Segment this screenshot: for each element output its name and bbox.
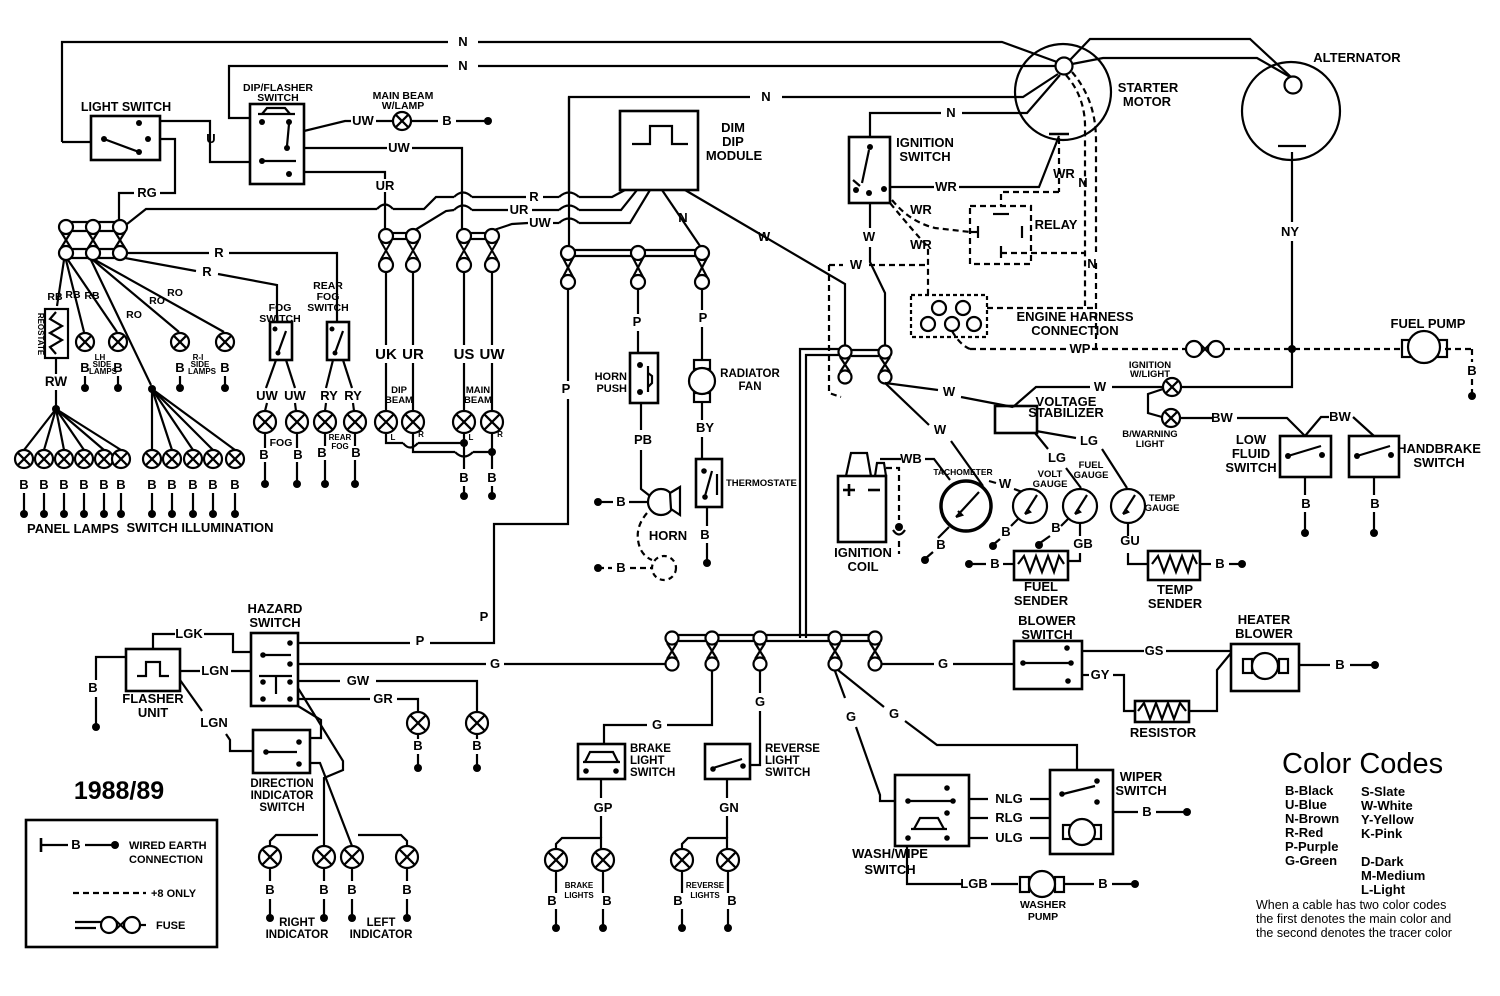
svg-text:K-Pink: K-Pink [1361, 826, 1403, 841]
wire main beam B grounds [459, 432, 468, 500]
svg-text:CONNECTION: CONNECTION [129, 854, 203, 866]
wire LGK [153, 626, 251, 652]
svg-text:FOG: FOG [270, 437, 293, 449]
bus fuse G4 [829, 632, 842, 671]
svg-text:M-Medium: M-Medium [1361, 868, 1425, 883]
bus fuse G2 [706, 632, 719, 671]
wire US column [454, 272, 475, 411]
svg-text:FAN: FAN [739, 381, 762, 393]
fuse W1 [839, 346, 852, 384]
svg-text:W: W [943, 384, 956, 399]
svg-text:B: B [413, 738, 422, 753]
svg-text:B-Black: B-Black [1285, 783, 1334, 798]
color codes note [1256, 898, 1452, 940]
svg-text:W/LAMP: W/LAMP [382, 100, 425, 112]
svg-text:INDICATOR: INDICATOR [350, 929, 414, 941]
svg-text:N: N [678, 210, 687, 225]
dashed coil lead [886, 468, 905, 554]
svg-text:SWITCH: SWITCH [765, 767, 810, 779]
dashed W vertical [829, 265, 841, 397]
svg-text:RG: RG [137, 185, 157, 200]
svg-text:W: W [863, 229, 876, 244]
svg-text:B: B [147, 477, 156, 492]
svg-text:FOG: FOG [331, 442, 348, 451]
svg-text:SWITCH: SWITCH [899, 149, 950, 164]
wire R bus to dim dip [127, 189, 625, 224]
panel lamp 1 [15, 450, 33, 518]
LH side lamp 2 [109, 333, 127, 392]
svg-text:B: B [616, 560, 625, 575]
fuse F3 [113, 220, 127, 260]
svg-text:INDICATOR: INDICATOR [266, 929, 330, 941]
LH side lamp 1 [76, 333, 94, 392]
dashed WR ignition to harness [890, 203, 932, 295]
svg-text:B: B [99, 477, 108, 492]
svg-text:HAZARD: HAZARD [248, 601, 303, 616]
rear fog switch [307, 280, 349, 360]
svg-text:WR: WR [1053, 166, 1075, 181]
svg-text:US: US [454, 346, 475, 363]
radiator fan [689, 360, 781, 402]
b/warning light lamp [1122, 409, 1180, 450]
main beam label [464, 385, 492, 406]
wire P to radiator fan [699, 289, 708, 360]
wire B low fluid [1301, 477, 1311, 537]
brake light switch [578, 743, 675, 779]
dip beam lamp L [375, 411, 397, 442]
bus fuse G1 [666, 632, 679, 671]
svg-text:W: W [934, 422, 947, 437]
switch illumination lamp 4 [204, 450, 222, 518]
svg-text:N: N [1078, 175, 1087, 190]
fuse F1 [59, 220, 73, 260]
svg-text:STARTER: STARTER [1118, 80, 1179, 95]
starter motor [1015, 44, 1179, 140]
svg-text:GS: GS [1145, 643, 1164, 658]
wire UR bus to dim dip [415, 190, 637, 230]
panel lamp 5 [95, 450, 113, 518]
svg-text:SWITCH: SWITCH [1225, 460, 1276, 475]
color codes column 2 [1361, 784, 1425, 897]
svg-text:STABILIZER: STABILIZER [1028, 405, 1104, 420]
fuse UR [406, 229, 420, 272]
wire B thermostate [700, 507, 711, 567]
right indicator lamp 2 [313, 846, 335, 922]
dashed WR ignition to relay [892, 200, 970, 232]
rheostat [36, 309, 68, 358]
wire UR column [402, 272, 424, 411]
switch illumination lamp 5 [226, 450, 244, 518]
svg-text:LAMPS: LAMPS [89, 367, 118, 376]
svg-text:L: L [391, 433, 396, 442]
brake lamps link [556, 838, 601, 849]
svg-text:B: B [347, 882, 356, 897]
svg-text:GR: GR [373, 691, 393, 706]
wire B wiper [1113, 804, 1191, 819]
svg-text:G: G [846, 709, 856, 724]
svg-text:PUMP: PUMP [1028, 911, 1058, 923]
left indicator label [350, 917, 414, 941]
GR lamp [407, 712, 429, 772]
switch illumination lamp 2 [163, 450, 181, 518]
panel lamp 3 [55, 450, 73, 518]
svg-text:LEFT: LEFT [367, 917, 396, 929]
fuse UK [379, 229, 393, 272]
low fluid switch [1225, 432, 1331, 477]
svg-text:B: B [317, 445, 326, 460]
wires starter to alternator [1070, 39, 1292, 78]
svg-text:LAMPS: LAMPS [188, 367, 217, 376]
wire GB [1068, 523, 1093, 561]
svg-text:SWITCH: SWITCH [1413, 455, 1464, 470]
svg-text:RLG: RLG [995, 810, 1022, 825]
reverse lamp 1 [671, 849, 693, 932]
relay [970, 206, 1084, 264]
wire U [160, 121, 250, 162]
svg-text:GP: GP [594, 800, 613, 815]
right indicator label [266, 917, 330, 941]
wire B flasher [88, 657, 126, 731]
voltage stabilizer [995, 394, 1104, 433]
svg-text:WASHER: WASHER [1020, 899, 1067, 911]
svg-text:LIGHT: LIGHT [765, 755, 800, 767]
svg-text:WB: WB [900, 451, 922, 466]
svg-text:FLUID: FLUID [1232, 446, 1270, 461]
temp gauge [1111, 489, 1179, 523]
svg-text:WR: WR [935, 179, 957, 194]
wire RG [119, 139, 175, 220]
wire W long to gauges [885, 383, 1025, 493]
svg-text:B: B [1301, 496, 1310, 511]
svg-text:Color Codes: Color Codes [1282, 748, 1443, 780]
svg-text:GAUGE: GAUGE [1145, 503, 1180, 514]
svg-text:PB: PB [634, 432, 652, 447]
svg-text:P: P [416, 633, 425, 648]
svg-text:LGK: LGK [175, 626, 203, 641]
brake lamp 1 [545, 849, 567, 932]
panel lamp fan wires [24, 409, 121, 450]
wire BW [1180, 409, 1374, 436]
main beam w/lamp [373, 90, 434, 130]
wire BY [696, 402, 714, 459]
svg-text:G: G [490, 656, 500, 671]
fuse WP [1186, 341, 1224, 357]
dashed WP line [952, 331, 1186, 356]
svg-text:D-Dark: D-Dark [1361, 854, 1404, 869]
svg-text:GY: GY [1091, 667, 1110, 682]
dashed N2 curve from starter [1072, 72, 1097, 349]
wire G hazard feed [298, 656, 666, 671]
wire B handbrake [1370, 477, 1380, 537]
svg-text:B: B [220, 360, 229, 375]
panel lamp 6 [112, 450, 130, 518]
RH side lamps label [188, 353, 217, 376]
alternator [1242, 50, 1401, 160]
svg-text:P: P [699, 310, 708, 325]
svg-text:UNIT: UNIT [138, 705, 168, 720]
reverse lamps link [682, 838, 727, 849]
svg-text:P: P [480, 609, 489, 624]
wire N4 ignition to starter [870, 75, 1060, 137]
resistor [1130, 701, 1197, 740]
svg-text:R: R [418, 430, 424, 439]
svg-text:W: W [999, 476, 1012, 491]
svg-text:RY: RY [344, 388, 362, 403]
svg-text:UW: UW [284, 388, 306, 403]
svg-text:RY: RY [320, 388, 338, 403]
svg-text:SWITCH: SWITCH [259, 802, 304, 814]
wire W dim dip diagonal [685, 190, 845, 346]
svg-text:LIGHTS: LIGHTS [564, 891, 594, 900]
svg-text:HEATER: HEATER [1238, 612, 1291, 627]
svg-text:B: B [351, 445, 360, 460]
beam link wire 2 [413, 433, 496, 457]
panel lamp 4 [75, 450, 93, 518]
svg-text:LGB: LGB [960, 876, 987, 891]
wire B fuel gauge [1035, 519, 1068, 549]
bus fuse G5 [869, 632, 882, 671]
svg-text:B: B [1001, 524, 1010, 539]
svg-text:B: B [230, 477, 239, 492]
double feed line to bottom bus [800, 349, 879, 638]
svg-text:BW: BW [1329, 409, 1351, 424]
svg-text:NLG: NLG [995, 791, 1022, 806]
svg-text:B: B [472, 738, 481, 753]
wire direction to left indicator [310, 763, 352, 846]
bottom bus rails [666, 635, 881, 641]
svg-text:R: R [214, 245, 224, 260]
wire UW2 from dip/flasher [304, 140, 462, 229]
wire LGN to hazard [180, 663, 251, 678]
brake lights label [564, 881, 594, 900]
svg-text:B: B [116, 477, 125, 492]
svg-text:B: B [319, 882, 328, 897]
wire NY alternator down [1281, 152, 1299, 348]
svg-text:FUEL PUMP: FUEL PUMP [1391, 316, 1466, 331]
wire B washer pump [1064, 876, 1139, 891]
svg-text:DIP: DIP [722, 134, 744, 149]
wire GU [1120, 523, 1148, 564]
wire G to blower switch [882, 656, 1014, 671]
svg-text:DIM: DIM [721, 120, 745, 135]
svg-text:B: B [19, 477, 28, 492]
svg-text:B: B [673, 893, 682, 908]
wire B temp sender [1200, 556, 1246, 571]
svg-text:B: B [293, 447, 302, 462]
heater blower [1231, 612, 1299, 691]
wire GW [298, 673, 477, 712]
svg-text:UW: UW [352, 113, 374, 128]
left indicator lamp 1 [341, 846, 363, 922]
svg-text:WIRED EARTH: WIRED EARTH [129, 840, 207, 852]
wire GP [594, 779, 613, 838]
svg-text:IGNITION: IGNITION [834, 545, 892, 560]
temp sender [1148, 551, 1203, 611]
wire UW bus to dim dip [494, 190, 650, 230]
svg-text:RIGHT: RIGHT [279, 917, 315, 929]
svg-text:DIRECTION: DIRECTION [250, 778, 313, 790]
wire GS [1082, 643, 1231, 658]
svg-text:HANDBRAKE: HANDBRAKE [1397, 441, 1481, 456]
wire RLG [969, 810, 1050, 825]
switch illumination lamp 1 [143, 450, 161, 518]
svg-text:FUSE: FUSE [156, 920, 185, 932]
wire light switch left to N1 [62, 141, 91, 143]
dashed W from relay area [829, 257, 928, 272]
wire R diagonal to fog [125, 258, 277, 322]
svg-text:LGN: LGN [200, 715, 227, 730]
svg-text:B: B [936, 537, 945, 552]
wire B heater blower [1299, 657, 1379, 672]
blower switch [1014, 613, 1082, 689]
svg-text:B: B [1467, 363, 1476, 378]
svg-text:FUEL: FUEL [1024, 579, 1058, 594]
svg-text:BY: BY [696, 420, 714, 435]
wire UW column [480, 272, 506, 411]
svg-text:RO: RO [126, 309, 142, 321]
svg-text:B: B [208, 477, 217, 492]
svg-text:BRAKE: BRAKE [630, 743, 671, 755]
svg-text:R: R [529, 189, 539, 204]
GW lamp [466, 712, 488, 772]
svg-text:RB: RB [84, 290, 100, 302]
starter ground bar [1049, 133, 1069, 136]
wire W stabilizer to warning lamp [1013, 379, 1163, 407]
svg-text:LIGHT SWITCH: LIGHT SWITCH [81, 100, 171, 114]
svg-text:RADIATOR: RADIATOR [720, 368, 780, 380]
svg-text:G: G [755, 694, 765, 709]
svg-text:G: G [889, 706, 899, 721]
fog switch [259, 302, 300, 360]
wire G to brake light switch [604, 671, 712, 744]
engine harness connection [911, 295, 1134, 338]
svg-text:U: U [206, 131, 215, 146]
legend box [26, 820, 217, 947]
svg-text:RW: RW [45, 374, 68, 389]
right indicator lamp 1 [259, 846, 281, 922]
svg-text:SWITCH: SWITCH [259, 313, 300, 325]
svg-text:B: B [1370, 496, 1379, 511]
fuse W2 [879, 346, 892, 384]
svg-text:RB: RB [47, 291, 63, 303]
light switch [81, 100, 171, 160]
main beam lamp L [453, 411, 475, 442]
svg-text:B: B [700, 527, 709, 542]
svg-text:ENGINE HARNESS: ENGINE HARNESS [1016, 309, 1133, 324]
svg-text:GB: GB [1073, 536, 1093, 551]
wire RB fan [47, 260, 117, 332]
fog lamp 2 [286, 411, 308, 488]
svg-text:REOSTATE: REOSTATE [36, 313, 45, 356]
svg-text:HORN: HORN [649, 528, 687, 543]
wire GN [719, 779, 739, 838]
wire W ignition down [863, 203, 885, 346]
svg-text:P: P [633, 314, 642, 329]
svg-text:RO: RO [167, 287, 183, 299]
flasher unit [122, 649, 184, 720]
svg-text:BRAKE: BRAKE [565, 881, 594, 890]
svg-text:SWITCH: SWITCH [1021, 627, 1072, 642]
color codes column 1 [1285, 783, 1339, 868]
svg-text:UR: UR [510, 202, 529, 217]
svg-text:B: B [487, 470, 496, 485]
wire GY [1082, 667, 1135, 711]
RH side lamp 2 [216, 333, 234, 392]
svg-text:When a cable has two color cod: When a cable has two color codes [1256, 898, 1446, 912]
svg-text:GAUGE: GAUGE [1074, 470, 1109, 481]
RH side lamp 1 [171, 333, 189, 392]
wire B fuel pump [1445, 349, 1477, 400]
svg-text:REVERSE: REVERSE [686, 881, 725, 890]
svg-text:LG: LG [1048, 450, 1066, 465]
svg-text:MODULE: MODULE [706, 148, 763, 163]
svg-text:B: B [1142, 804, 1151, 819]
fuse US [457, 229, 471, 272]
volt gauge [1013, 469, 1067, 523]
svg-text:B: B [459, 470, 468, 485]
svg-text:1988/89: 1988/89 [74, 777, 164, 805]
svg-text:B: B [188, 477, 197, 492]
mid fuse rail [561, 250, 709, 256]
svg-text:LOW: LOW [1236, 432, 1267, 447]
svg-text:RO: RO [149, 295, 165, 307]
svg-text:BEAM: BEAM [464, 395, 492, 406]
svg-text:B: B [1098, 876, 1107, 891]
svg-text:INDICATOR: INDICATOR [251, 790, 315, 802]
bus fuse G3 [754, 632, 767, 671]
wire main beam B ground 2 [487, 432, 496, 500]
svg-text:THERMOSTATE: THERMOSTATE [726, 478, 797, 489]
wire hazard to direction box [298, 706, 321, 738]
svg-text:WASH/WIPE: WASH/WIPE [852, 846, 928, 861]
svg-text:B: B [259, 447, 268, 462]
brake lamp 2 [592, 849, 614, 932]
wire RO fan [91, 260, 224, 385]
fuse P1 [561, 246, 575, 289]
fog switch output wires [256, 360, 306, 411]
wire NLG [969, 791, 1050, 806]
svg-text:GAUGE: GAUGE [1033, 479, 1068, 490]
svg-text:LG: LG [1080, 433, 1098, 448]
legend wired earth [41, 837, 207, 866]
svg-text:ULG: ULG [995, 830, 1022, 845]
dashed harness link right [987, 307, 1096, 309]
tachometer [933, 467, 992, 531]
svg-text:R: R [497, 430, 503, 439]
switch illumination fan wires [152, 389, 235, 450]
svg-text:BW: BW [1211, 410, 1233, 425]
horn [648, 487, 687, 543]
svg-text:B: B [402, 882, 411, 897]
svg-text:TACHOMETER: TACHOMETER [933, 467, 992, 477]
wire UR from dip/flasher [304, 172, 395, 229]
handbrake switch [1349, 436, 1481, 477]
svg-text:RELAY: RELAY [1035, 217, 1078, 232]
horn push [595, 353, 658, 403]
svg-text:B: B [1335, 657, 1344, 672]
direction indicator switch [250, 730, 314, 814]
fuse rail links [393, 233, 485, 239]
reverse light switch [705, 743, 820, 779]
switch illumination junction [148, 385, 156, 393]
left indicator link [358, 835, 407, 846]
svg-text:PANEL LAMPS: PANEL LAMPS [27, 521, 119, 536]
ignition w/light lamp [1129, 360, 1181, 396]
left indicator lamp 2 [396, 846, 418, 922]
svg-text:N: N [458, 34, 467, 49]
svg-text:SENDER: SENDER [1148, 596, 1203, 611]
legend fuse [75, 917, 185, 933]
